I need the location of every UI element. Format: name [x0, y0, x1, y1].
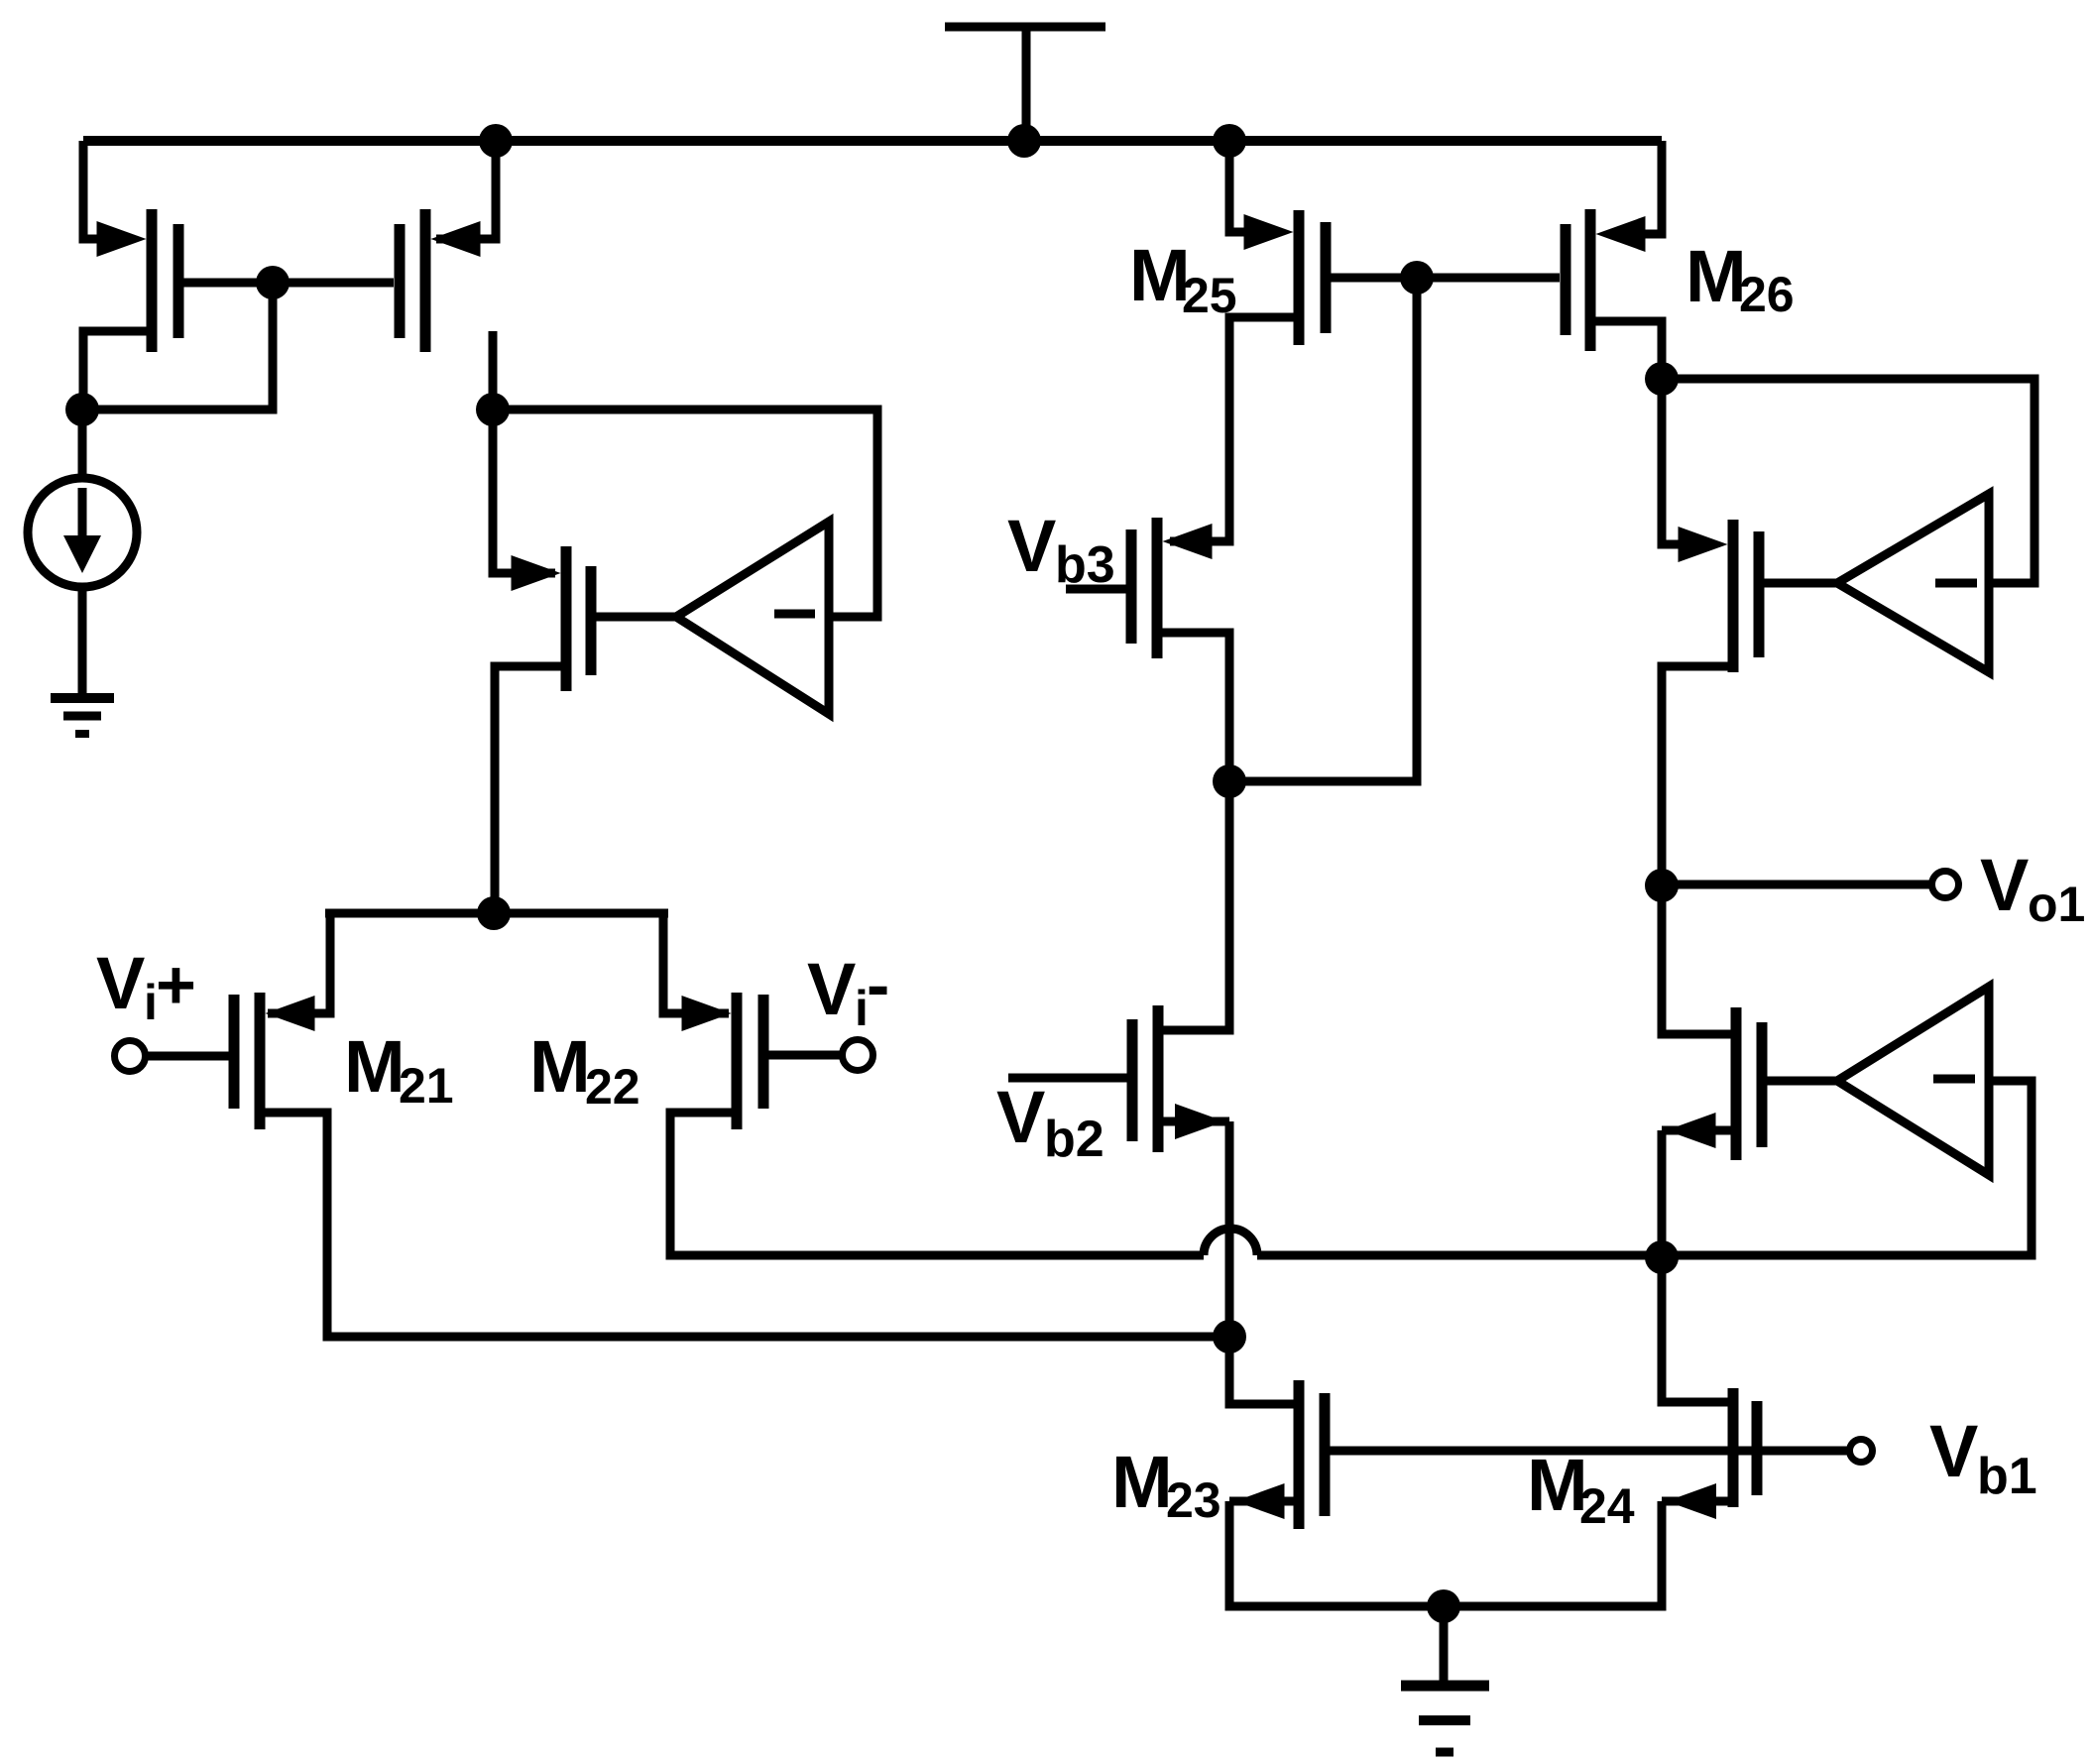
- transistor M22 input PMOS: [682, 993, 764, 1129]
- svg-text:b2: b2: [1044, 1111, 1104, 1168]
- transistor N4 boosted cascode NMOS upper: [1679, 520, 1760, 672]
- power supply symbol VDD: [945, 27, 1105, 141]
- svg-text:V: V: [1929, 1410, 1978, 1492]
- transistor M23 NMOS: [1229, 1380, 1325, 1529]
- node G: [1645, 362, 1679, 396]
- svg-text:V: V: [96, 942, 145, 1024]
- wire feedback amp A3 to source node: [1662, 1081, 2032, 1255]
- svg-text:b3: b3: [1055, 536, 1115, 594]
- wire node I to M24 drain: [1662, 1257, 1733, 1402]
- wire N5 source down: [1658, 1130, 1667, 1257]
- terminal Vb1: [1850, 1440, 1873, 1463]
- wire N5 gate to amp A3 output: [1767, 1077, 1837, 1086]
- transistor P2 right mirror PMOS: [400, 209, 481, 352]
- node rail to M25 branch: [1213, 124, 1246, 158]
- wire P2 drain to node B: [489, 331, 498, 410]
- wire node B to cascode source: [493, 410, 555, 573]
- svg-text:26: 26: [1739, 267, 1795, 322]
- svg-text:o1: o1: [2028, 877, 2085, 932]
- op-amp A3 gain boost amplifier lower right: [1837, 987, 1989, 1175]
- wire M22 source drop: [663, 913, 729, 1013]
- wire N4 drain to Vo1 node: [1662, 666, 1733, 885]
- wire P1 gate: [183, 279, 273, 288]
- svg-text:M: M: [1111, 1441, 1173, 1523]
- transistor M25 PMOS: [1244, 210, 1327, 345]
- wire M23 source to ground node: [1229, 1501, 1444, 1606]
- svg-text:M: M: [344, 1025, 406, 1108]
- wire M21 source drop: [268, 913, 330, 1013]
- wire M24 source to ground node: [1444, 1501, 1662, 1606]
- node rail to left mirror PMOS: [479, 124, 513, 158]
- wire M26 source from rail: [1642, 141, 1662, 234]
- transistor N5 boosted cascode NMOS lower: [1662, 1007, 1762, 1160]
- transistor P1 left mirror PMOS: [97, 209, 179, 352]
- wire diff pair top: [325, 909, 668, 918]
- node C diff pair common source: [477, 896, 511, 930]
- node E: [1213, 764, 1246, 798]
- wire M26 gate to tie node: [1417, 274, 1560, 283]
- terminal Vi-: [843, 1040, 873, 1071]
- svg-text:-: -: [867, 946, 889, 1023]
- wire Vb2 gate: [1008, 1074, 1127, 1083]
- node gate tie of mirror: [256, 266, 290, 299]
- wire P2 source from rail: [436, 141, 496, 239]
- label Vb3: [1007, 505, 1115, 594]
- label Vi-: [807, 946, 889, 1036]
- svg-text:b1: b1: [1977, 1448, 2037, 1505]
- node supply tap on rail: [1007, 124, 1041, 158]
- wire node F to M23 drain: [1229, 1337, 1299, 1404]
- svg-text:24: 24: [1579, 1478, 1635, 1534]
- label M21: [344, 1025, 454, 1114]
- wire N2 drain to node E: [1157, 633, 1229, 781]
- ground left: [51, 698, 114, 734]
- node F M23 drain node: [1213, 1320, 1246, 1353]
- svg-text:22: 22: [585, 1059, 640, 1115]
- ground right: [1401, 1686, 1489, 1752]
- svg-text:V: V: [1007, 505, 1056, 587]
- op-amp A1 gain boost amplifier: [676, 522, 829, 714]
- wire M26 drain to node G: [1590, 321, 1662, 379]
- svg-text:23: 23: [1166, 1472, 1221, 1528]
- svg-text:M: M: [1685, 235, 1747, 317]
- wire M21 drain down: [260, 1113, 1220, 1337]
- terminal Vi+: [115, 1041, 146, 1072]
- wire gate tie to node A: [89, 283, 273, 410]
- svg-text:M: M: [529, 1025, 591, 1108]
- label M26: [1685, 235, 1795, 322]
- label M22: [529, 1025, 640, 1115]
- node I right source node: [1645, 1240, 1679, 1274]
- node J ground node: [1427, 1589, 1460, 1623]
- transistor N1 left cascode NMOS: [512, 546, 592, 691]
- label Vi+: [96, 942, 196, 1030]
- transistor N2 cascode NMOS Vb3: [1131, 518, 1213, 658]
- wire current source to ground: [78, 587, 87, 698]
- transistor M26 PMOS: [1566, 209, 1646, 351]
- transistor M21 input PMOS: [234, 993, 315, 1129]
- op-amp A2 gain boost amplifier upper right: [1837, 494, 1989, 672]
- wire ground node down: [1440, 1606, 1449, 1686]
- wire Vo1 node to terminal: [1662, 881, 1929, 889]
- wire M25 drain down: [1170, 317, 1299, 541]
- node B cascode drain node: [476, 393, 510, 426]
- label M25: [1129, 234, 1237, 323]
- wire left PMOS source from rail: [83, 141, 103, 239]
- svg-text:V: V: [1980, 844, 2029, 926]
- node D gate tie M25 M26: [1400, 261, 1434, 294]
- wire node A to current source: [78, 410, 87, 478]
- wire N4 gate to amp A2 output: [1764, 579, 1837, 588]
- wire M21 gate to Vi+ terminal: [146, 1052, 229, 1061]
- wire N3 source down to node F: [1225, 1121, 1234, 1337]
- wire node G to N4 source: [1662, 379, 1685, 544]
- wire gate tie down to node E: [1239, 278, 1417, 781]
- wire feedback node B to amp A1: [493, 410, 877, 617]
- label Vb1: [1929, 1410, 2037, 1505]
- label Vb2: [996, 1076, 1104, 1168]
- wire M22 drain to right branch: [1257, 1251, 1662, 1260]
- wire hop over middle branch: [1204, 1229, 1257, 1255]
- wire N1 drain to diff pair node: [495, 666, 566, 913]
- transistor N3 cascode NMOS Vb2: [1132, 1005, 1229, 1152]
- wire Vo1 node to N5 drain: [1662, 885, 1736, 1034]
- label M24: [1527, 1444, 1635, 1534]
- wire P1 drain to node A: [83, 331, 152, 410]
- current source I1: [28, 478, 137, 587]
- svg-text:V: V: [807, 948, 856, 1030]
- wire P2 gate: [273, 279, 394, 288]
- wire feedback node G to amp A2: [1662, 379, 2034, 583]
- wire M22 gate to Vi- terminal: [768, 1051, 842, 1060]
- transistor M24 NMOS: [1662, 1388, 1757, 1519]
- wire M23 M24 gates to Vb1: [1330, 1447, 1847, 1456]
- wire node E down to N3 drain: [1157, 781, 1229, 1030]
- node A mirror drain: [65, 393, 99, 426]
- wire M25 source from rail: [1229, 141, 1249, 232]
- svg-text:+: +: [156, 946, 196, 1023]
- svg-text:21: 21: [399, 1058, 454, 1114]
- label Vo1: [1980, 844, 2085, 932]
- wire M22 drain down: [670, 1113, 1204, 1255]
- wire M25 gate to tie node: [1331, 274, 1417, 283]
- wire VDD top rail: [83, 136, 1662, 146]
- terminal Vo1: [1932, 872, 1959, 898]
- svg-text:V: V: [996, 1076, 1045, 1158]
- wire N1 gate to amp A1 output: [596, 613, 676, 622]
- node H Vo1 node: [1645, 869, 1679, 902]
- label M23: [1111, 1441, 1221, 1528]
- wire Vb3 gate: [1066, 585, 1126, 594]
